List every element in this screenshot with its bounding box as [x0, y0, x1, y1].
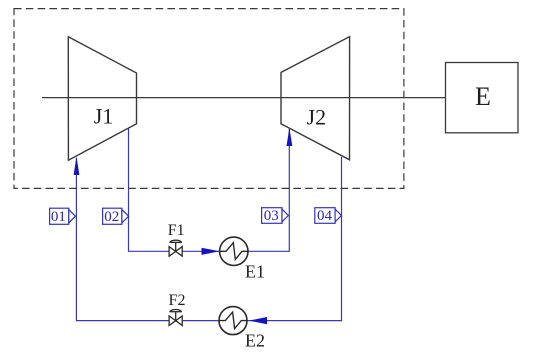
svg-text:E1: E1	[245, 262, 265, 282]
svg-text:E2: E2	[245, 331, 265, 351]
svg-text:J2: J2	[307, 105, 327, 130]
svg-text:01: 01	[51, 209, 66, 225]
svg-text:02: 02	[104, 209, 119, 225]
svg-text:03: 03	[264, 208, 279, 224]
svg-text:F2: F2	[169, 292, 186, 309]
svg-text:F1: F1	[168, 222, 185, 239]
svg-text:E: E	[475, 82, 491, 111]
svg-text:J1: J1	[94, 104, 114, 129]
svg-text:04: 04	[317, 208, 333, 224]
